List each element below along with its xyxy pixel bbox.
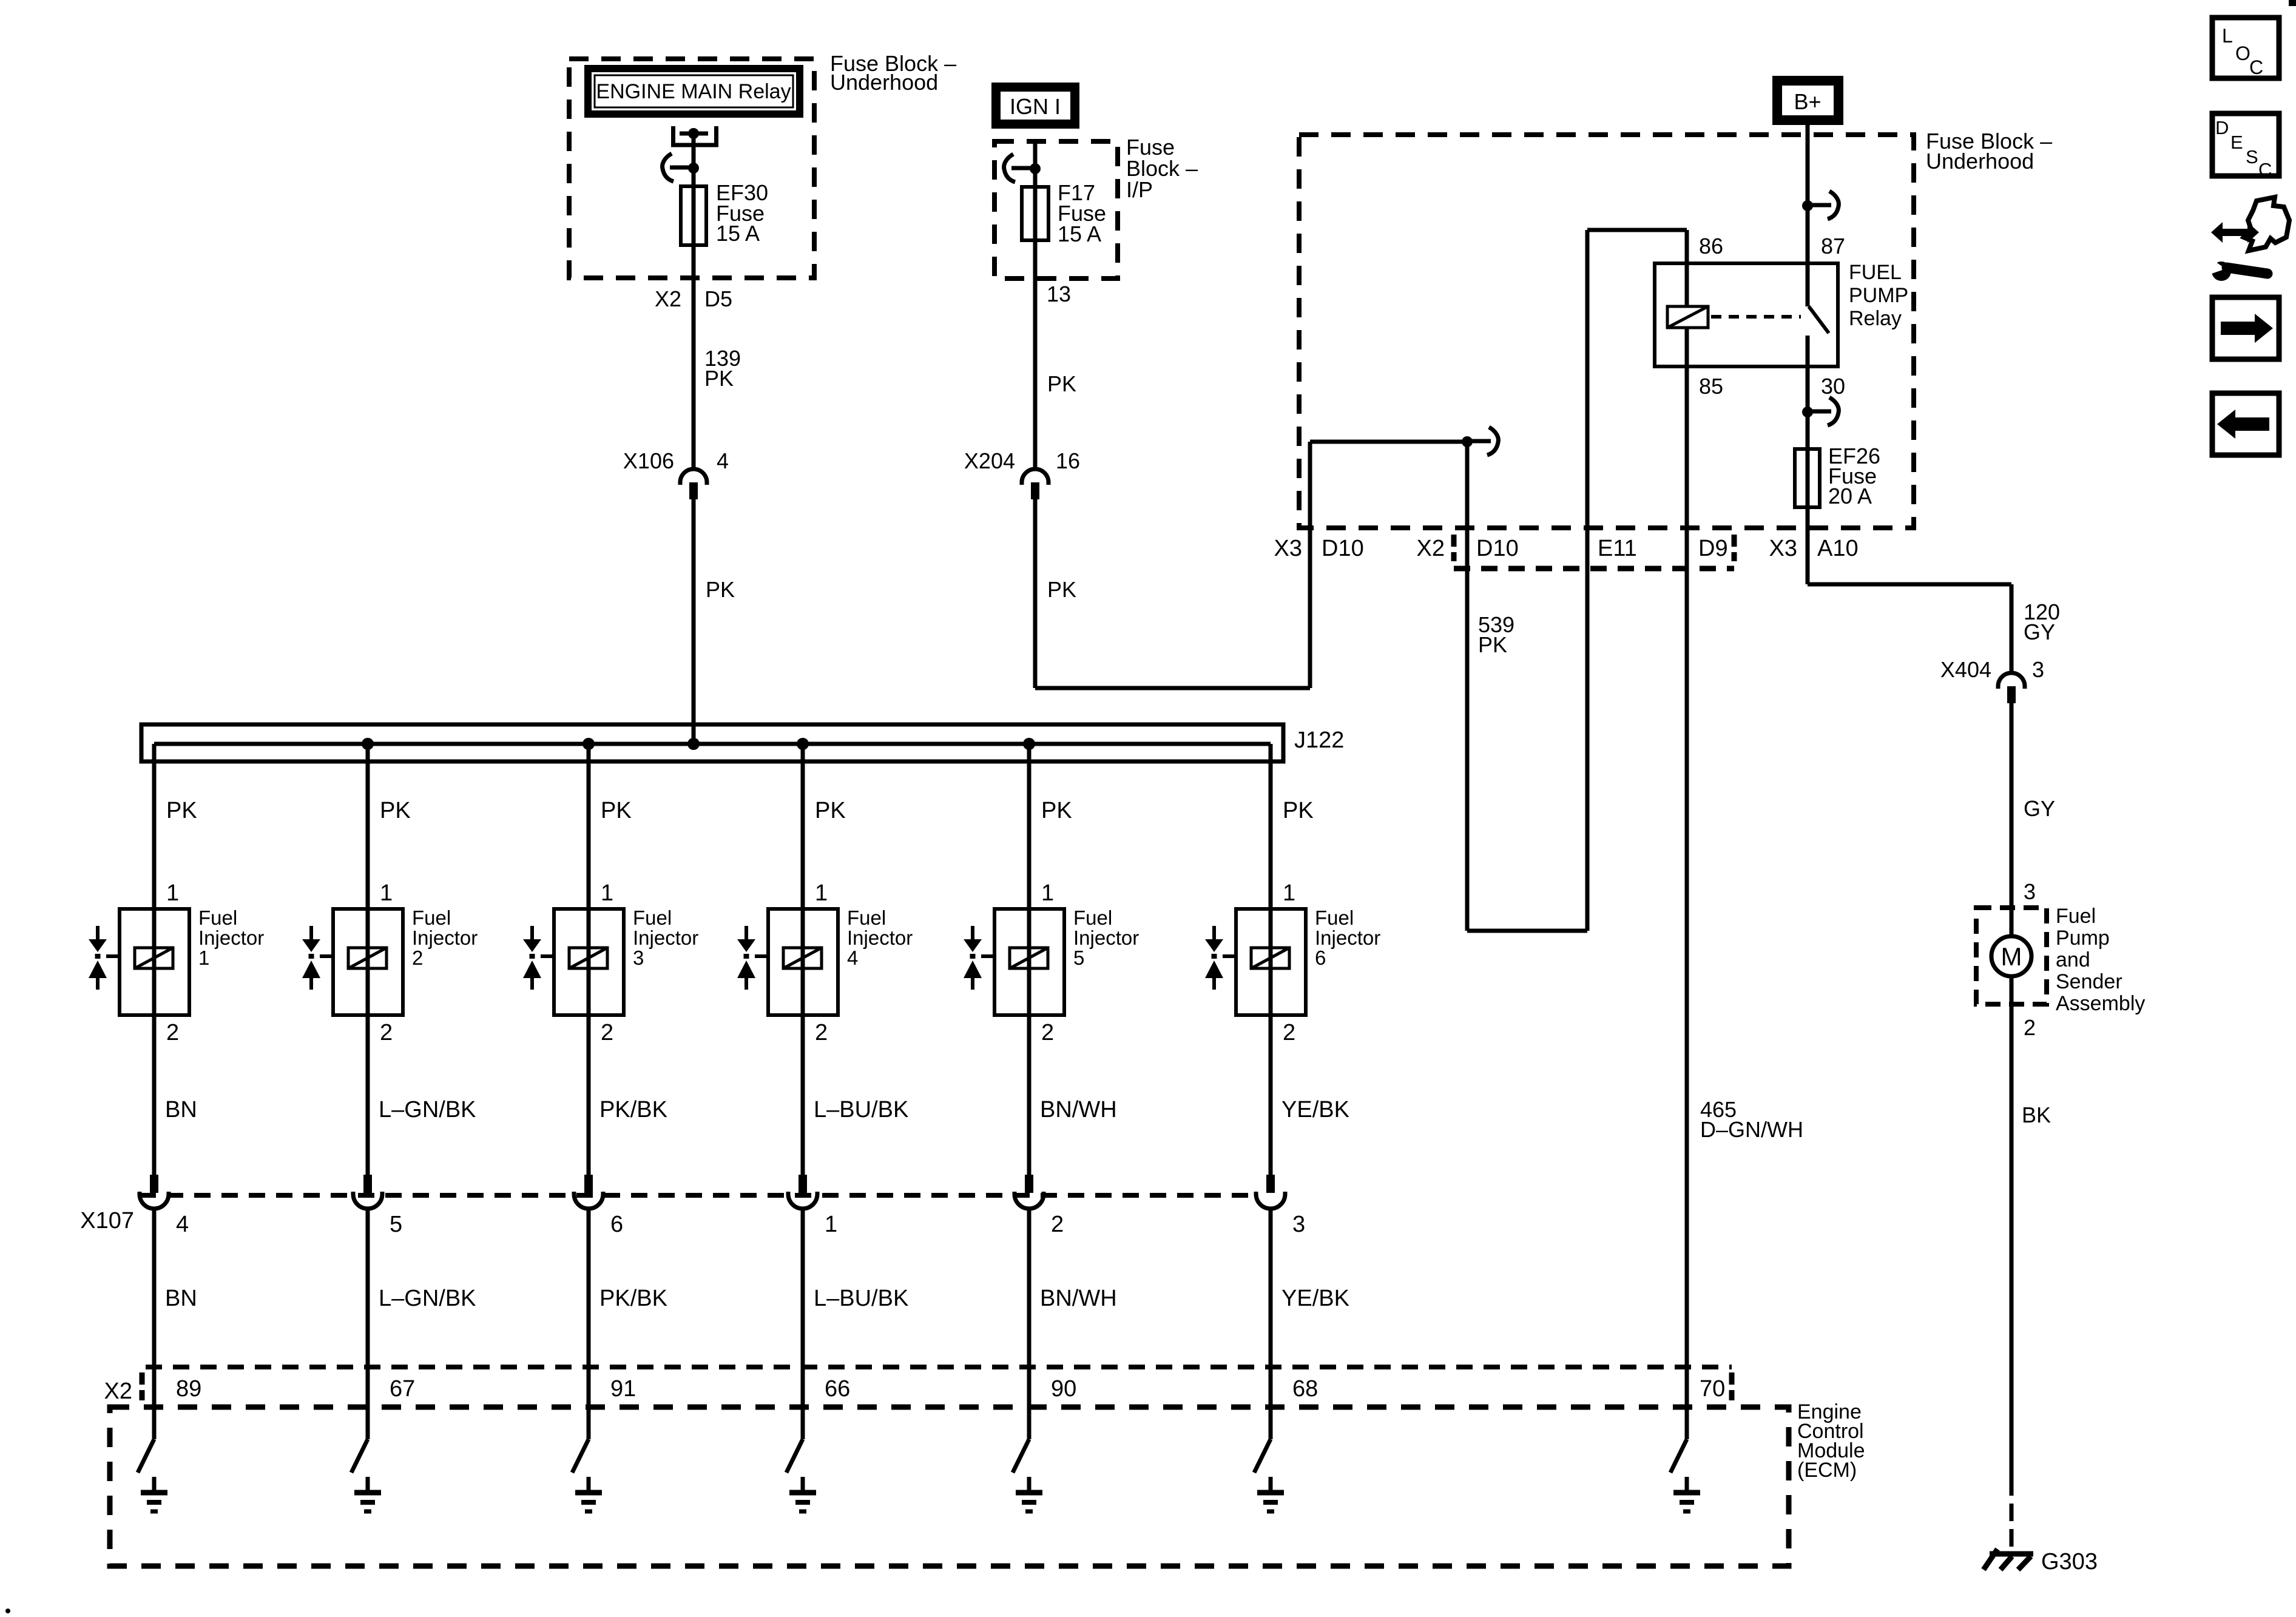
svg-text:Injector: Injector <box>412 927 478 949</box>
svg-text:PK/BK: PK/BK <box>599 1286 667 1311</box>
svg-text:68: 68 <box>1292 1376 1318 1402</box>
svg-text:D10: D10 <box>1322 536 1364 561</box>
svg-text:GY: GY <box>2024 619 2055 644</box>
svg-text:L: L <box>2222 25 2233 47</box>
svg-text:PK: PK <box>1041 798 1072 823</box>
svg-text:PK: PK <box>815 798 846 823</box>
svg-text:2: 2 <box>601 1020 613 1045</box>
svg-text:4: 4 <box>176 1212 189 1237</box>
svg-text:and: and <box>2056 948 2090 971</box>
svg-text:2: 2 <box>815 1020 828 1045</box>
svg-text:PK: PK <box>380 798 411 823</box>
svg-text:PK: PK <box>1047 577 1076 602</box>
svg-text:3: 3 <box>1292 1212 1305 1237</box>
svg-text:Injector: Injector <box>847 927 913 949</box>
svg-text:5: 5 <box>1073 947 1084 969</box>
svg-text:BK: BK <box>2022 1102 2051 1127</box>
svg-text:85: 85 <box>1699 374 1723 399</box>
svg-text:Injector: Injector <box>198 927 264 949</box>
svg-text:B+: B+ <box>1794 89 1821 114</box>
svg-text:90: 90 <box>1051 1376 1076 1402</box>
svg-text:86: 86 <box>1699 234 1723 258</box>
svg-text:70: 70 <box>1700 1376 1725 1402</box>
svg-text:X3: X3 <box>1274 536 1302 561</box>
svg-text:O: O <box>2235 42 2250 64</box>
svg-text:M: M <box>2001 942 2022 971</box>
svg-text:BN/WH: BN/WH <box>1040 1097 1117 1122</box>
svg-text:5: 5 <box>390 1212 402 1237</box>
svg-text:1: 1 <box>601 880 613 906</box>
svg-text:L–BU/BK: L–BU/BK <box>814 1286 908 1311</box>
svg-text:D10: D10 <box>1476 536 1519 561</box>
svg-text:91: 91 <box>610 1376 636 1402</box>
svg-text:Injector: Injector <box>1315 927 1380 949</box>
svg-text:X3: X3 <box>1769 536 1797 561</box>
svg-text:BN: BN <box>165 1286 197 1311</box>
svg-text:PUMP: PUMP <box>1849 284 1908 307</box>
svg-text:(ECM): (ECM) <box>1797 1459 1857 1482</box>
svg-text:66: 66 <box>825 1376 850 1402</box>
svg-text:YE/BK: YE/BK <box>1281 1097 1349 1122</box>
svg-text:BN: BN <box>165 1097 197 1122</box>
svg-text:PK/BK: PK/BK <box>599 1097 667 1122</box>
svg-text:E: E <box>2230 132 2243 153</box>
svg-text:X106: X106 <box>623 448 674 473</box>
svg-text:L–GN/BK: L–GN/BK <box>379 1286 476 1311</box>
svg-text:Fuel: Fuel <box>1315 906 1354 929</box>
svg-text:S: S <box>2246 146 2258 167</box>
svg-text:2: 2 <box>1041 1020 1054 1045</box>
svg-text:3: 3 <box>2032 657 2044 682</box>
svg-text:X404: X404 <box>1940 657 1991 682</box>
svg-text:Injector: Injector <box>633 927 698 949</box>
svg-text:1: 1 <box>380 880 393 906</box>
svg-text:PK: PK <box>1283 798 1314 823</box>
svg-text:PK: PK <box>1478 632 1507 657</box>
svg-text:4: 4 <box>847 947 858 969</box>
svg-text:2: 2 <box>412 947 423 969</box>
svg-text:15 A: 15 A <box>716 221 760 246</box>
svg-text:PK: PK <box>704 366 734 391</box>
svg-text:30: 30 <box>1821 374 1845 399</box>
svg-text:A10: A10 <box>1817 536 1859 561</box>
svg-text:Fuel: Fuel <box>198 906 237 929</box>
svg-text:3: 3 <box>2024 879 2036 904</box>
svg-text:ENGINE MAIN Relay: ENGINE MAIN Relay <box>596 80 791 103</box>
svg-text:1: 1 <box>1283 880 1295 906</box>
svg-text:L–GN/BK: L–GN/BK <box>379 1097 476 1122</box>
svg-text:1: 1 <box>825 1212 837 1237</box>
svg-text:Sender: Sender <box>2056 970 2122 993</box>
svg-text:E11: E11 <box>1598 536 1637 561</box>
svg-text:GY: GY <box>2024 796 2055 821</box>
svg-text:16: 16 <box>1056 448 1080 473</box>
svg-text:Underhood: Underhood <box>1926 149 2034 174</box>
svg-text:4: 4 <box>717 448 729 473</box>
svg-text:2: 2 <box>1051 1212 1064 1237</box>
svg-text:I/P: I/P <box>1126 177 1153 202</box>
svg-text:G303: G303 <box>2041 1549 2098 1575</box>
svg-text:X2: X2 <box>104 1379 132 1404</box>
svg-text:X107: X107 <box>80 1208 134 1234</box>
svg-text:1: 1 <box>198 947 209 969</box>
svg-text:89: 89 <box>176 1376 201 1402</box>
svg-text:1: 1 <box>1041 880 1054 906</box>
svg-text:PK: PK <box>706 577 735 602</box>
svg-text:2: 2 <box>380 1020 393 1045</box>
svg-text:PK: PK <box>1047 371 1076 396</box>
svg-text:X2: X2 <box>655 286 681 311</box>
svg-text:L–BU/BK: L–BU/BK <box>814 1097 908 1122</box>
svg-text:X2: X2 <box>1417 536 1445 561</box>
svg-text:Underhood: Underhood <box>830 70 938 95</box>
svg-text:2: 2 <box>2024 1015 2036 1040</box>
svg-text:Fuel: Fuel <box>412 906 451 929</box>
svg-text:BN/WH: BN/WH <box>1040 1286 1117 1311</box>
svg-text:IGN I: IGN I <box>1010 94 1061 119</box>
svg-text:Fuel: Fuel <box>2056 905 2096 928</box>
svg-text:1: 1 <box>166 880 179 906</box>
svg-text:2: 2 <box>1283 1020 1295 1045</box>
svg-text:3: 3 <box>633 947 644 969</box>
svg-text:13: 13 <box>1047 282 1071 306</box>
svg-text:C: C <box>2249 56 2263 78</box>
svg-text:2: 2 <box>166 1020 179 1045</box>
svg-text:87: 87 <box>1821 234 1845 258</box>
svg-text:YE/BK: YE/BK <box>1281 1286 1349 1311</box>
svg-text:Assembly: Assembly <box>2056 992 2145 1015</box>
svg-text:D: D <box>2215 117 2229 138</box>
svg-text:Fuel: Fuel <box>847 906 886 929</box>
svg-text:1: 1 <box>815 880 828 906</box>
svg-text:6: 6 <box>610 1212 623 1237</box>
svg-text:C: C <box>2258 159 2272 180</box>
svg-text:20 A: 20 A <box>1828 484 1872 508</box>
svg-text:6: 6 <box>1315 947 1326 969</box>
svg-text:Pump: Pump <box>2056 927 2110 950</box>
svg-text:D–GN/WH: D–GN/WH <box>1700 1117 1803 1142</box>
svg-text:J122: J122 <box>1294 727 1344 753</box>
svg-text:PK: PK <box>166 798 197 823</box>
svg-text:FUEL: FUEL <box>1849 261 1902 284</box>
svg-text:67: 67 <box>390 1376 415 1402</box>
svg-text:Injector: Injector <box>1073 927 1139 949</box>
svg-text:15 A: 15 A <box>1058 221 1101 246</box>
svg-text:Fuel: Fuel <box>633 906 672 929</box>
svg-text:D9: D9 <box>1698 536 1728 561</box>
svg-text:PK: PK <box>601 798 632 823</box>
svg-text:D5: D5 <box>704 286 732 311</box>
svg-text:X204: X204 <box>964 448 1015 473</box>
svg-text:Relay: Relay <box>1849 307 1902 330</box>
svg-text:Fuel: Fuel <box>1073 906 1112 929</box>
